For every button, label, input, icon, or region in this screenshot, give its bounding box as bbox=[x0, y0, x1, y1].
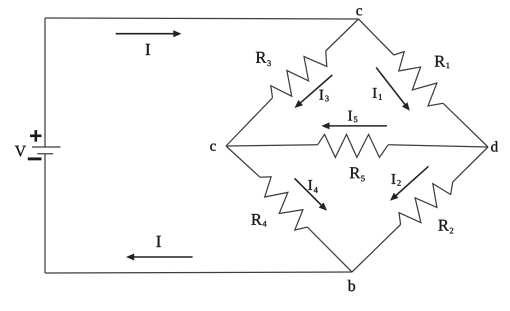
current arrow I3 bbox=[298, 75, 332, 105]
wire node d to R2 bbox=[453, 147, 488, 182]
current label I bottom bbox=[156, 236, 161, 247]
node label c top bbox=[356, 8, 362, 15]
label R2 bbox=[438, 220, 453, 234]
resistor R1 bbox=[394, 52, 443, 106]
current arrow I top bbox=[116, 33, 177, 35]
wire node c-top to R3 bbox=[326, 19, 359, 51]
label R5 bbox=[350, 167, 365, 181]
current arrow I1 bbox=[376, 68, 407, 107]
resistor R5 bbox=[318, 134, 389, 157]
node label c left bbox=[210, 144, 216, 151]
label I2 bbox=[392, 174, 401, 186]
resistor R4 bbox=[260, 177, 307, 230]
resistor R3 bbox=[271, 51, 327, 98]
wire left vertical upper lead bbox=[44, 18, 46, 147]
label I5 bbox=[348, 111, 357, 123]
battery V top plate (+) bbox=[32, 146, 61, 148]
node label d bbox=[491, 141, 498, 152]
wire R4 to node b bbox=[307, 227, 352, 272]
current arrow I5 bbox=[326, 125, 387, 127]
wire R2 to node b bbox=[352, 225, 401, 273]
battery label V bbox=[15, 146, 26, 157]
resistor R2 bbox=[399, 182, 453, 225]
battery minus sign bbox=[28, 157, 42, 160]
wire node c-top to R1 bbox=[359, 19, 394, 55]
wire top horizontal bbox=[45, 18, 359, 19]
label R3 bbox=[256, 52, 271, 66]
label I1 bbox=[373, 88, 382, 100]
current label I top bbox=[146, 44, 151, 55]
label I4 bbox=[308, 180, 318, 193]
wire R1 to node d bbox=[443, 103, 488, 147]
battery V bottom plate (-) bbox=[37, 153, 53, 155]
current arrow I4 bbox=[295, 178, 324, 207]
wire node c-left to R5 bbox=[226, 145, 318, 146]
wire R3 to node c-left bbox=[226, 98, 273, 146]
battery plus sign bbox=[30, 130, 42, 142]
label R4 bbox=[251, 214, 266, 227]
current arrow I bottom bbox=[131, 256, 193, 258]
wire R5 to node d bbox=[388, 145, 488, 147]
wire node c-left to R4 bbox=[226, 146, 260, 177]
label I3 bbox=[319, 90, 328, 102]
label R1 bbox=[435, 56, 450, 68]
node label b bbox=[348, 280, 355, 291]
wire bottom horizontal bbox=[45, 272, 352, 273]
wire left vertical lower lead bbox=[44, 154, 46, 273]
current arrow I2 bbox=[394, 166, 429, 197]
